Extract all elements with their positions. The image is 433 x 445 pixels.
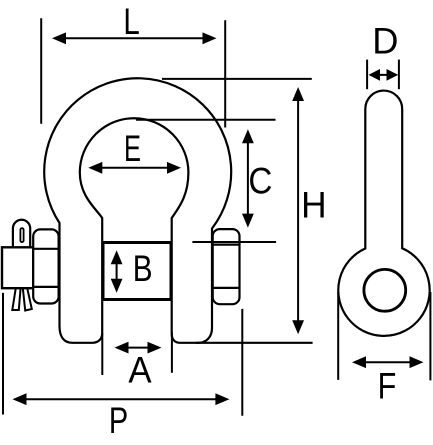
- cotter pin prong right: [23, 288, 32, 311]
- svg-text:F: F: [378, 365, 397, 406]
- svg-text:P: P: [109, 400, 128, 441]
- L extension line left: [40, 18, 42, 124]
- D extension line left: [366, 60, 368, 90]
- P extension line left: [2, 293, 4, 415]
- C top extension line: [136, 119, 276, 121]
- C dimension arrow: [242, 129, 254, 227]
- right hex facet line upper: [213, 244, 240, 246]
- A extension line right: [171, 332, 173, 373]
- cotter pin loop hole: [20, 228, 23, 242]
- cotter pin prong left: [12, 288, 20, 310]
- F extension line right: [429, 292, 431, 380]
- H bottom extension line: [196, 342, 313, 344]
- P extension line right: [241, 309, 243, 416]
- svg-text:E: E: [124, 128, 141, 169]
- E dimension arrow: [88, 162, 181, 174]
- pin dimension box B: [103, 243, 171, 300]
- side view body: [338, 91, 429, 336]
- F dimension arrow: [352, 356, 424, 368]
- F extension line left: [337, 292, 339, 380]
- svg-text:B: B: [133, 248, 153, 289]
- B dimension arrow: [111, 250, 123, 292]
- D dimension arrow: [369, 69, 399, 81]
- right hex head: [213, 229, 240, 304]
- cotter pin loop: [13, 220, 30, 249]
- H dimension arrow: [292, 87, 304, 334]
- right hex facet line lower: [213, 287, 240, 289]
- H top extension line: [162, 78, 312, 80]
- svg-text:H: H: [301, 185, 327, 226]
- svg-text:L: L: [123, 1, 139, 42]
- left nut facet line lower: [33, 286, 58, 288]
- bolt end block: [2, 247, 33, 288]
- A dimension arrow: [115, 342, 162, 354]
- P dimension arrow: [13, 393, 230, 405]
- side view pin hole: [364, 269, 406, 311]
- svg-text:D: D: [372, 21, 398, 62]
- D extension line right: [398, 60, 400, 90]
- left hex nut: [33, 229, 58, 303]
- left nut facet line upper: [33, 248, 58, 250]
- C bottom extension line: [192, 241, 276, 243]
- L dimension arrow: [52, 32, 217, 44]
- A extension line left: [101, 333, 103, 375]
- svg-text:C: C: [248, 161, 272, 202]
- svg-text:A: A: [128, 349, 151, 390]
- shackle bow body (front view outline): [44, 78, 231, 343]
- L extension line right: [224, 20, 226, 127]
